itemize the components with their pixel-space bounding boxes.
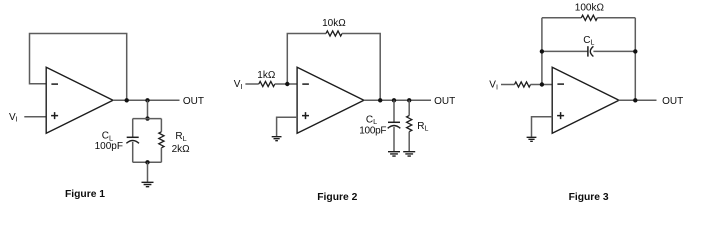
wire CL branch upper segment [393, 100, 395, 122]
junction feedback tap on output [125, 98, 129, 102]
ground (figure 3 noninverting input) [527, 137, 537, 141]
svg-text:100pF: 100pF [359, 126, 386, 137]
svg-text:Figure 3: Figure 3 [569, 192, 609, 203]
svg-text:OUT: OUT [434, 96, 455, 107]
wire Vi to op-amp noninverting input [24, 116, 46, 118]
wire noninverting input to ground [532, 117, 553, 137]
wire input resistor to inverting input [531, 84, 553, 86]
wire feedback left vertical [541, 18, 543, 85]
svg-text:Figure 2: Figure 2 [317, 192, 357, 203]
wire CL branch lower segment [393, 127, 395, 151]
svg-text:CL: CL [366, 115, 377, 127]
wire noninverting input to ground [277, 117, 298, 136]
wire outer feedback top left segment [542, 17, 581, 19]
wire op-amp output to OUT [619, 99, 657, 101]
wire feedback down to output node [342, 34, 380, 101]
svg-text:RL: RL [175, 131, 186, 143]
wire output node down to load network [147, 100, 149, 118]
wire to ground (figure 1) [147, 162, 149, 182]
capacitor CL (figure 3) [587, 46, 589, 56]
svg-text:1kΩ: 1kΩ [257, 70, 276, 81]
wire feedback loop output to inverting input [30, 34, 127, 101]
wire RL branch lower segment [160, 148, 162, 163]
resistor 10k feedback (figure 2) [326, 31, 342, 36]
junction CL tap [392, 98, 396, 102]
wire Vi to input resistor [245, 83, 258, 85]
wire Vi to input resistor [501, 84, 515, 86]
junction bottom of CL/RL pair [145, 160, 149, 164]
resistor 1k input (figure 2) [259, 81, 275, 86]
op-amp U1 (figure 1 voltage follower) [46, 67, 113, 133]
junction inverting input node [285, 82, 289, 86]
wire outer feedback top right segment [597, 17, 635, 19]
junction top of CL/RL parallel pair [145, 116, 149, 120]
wire CL branch lower segment [132, 142, 134, 162]
wire RL branch upper segment [160, 119, 162, 132]
resistor input (figure 3) [515, 82, 531, 87]
wire RL branch upper segment [408, 100, 410, 115]
junction CL right [633, 49, 637, 53]
svg-text:OUT: OUT [662, 96, 683, 107]
svg-text:Figure 1: Figure 1 [65, 189, 105, 200]
capacitor CL 100pF (figure 1) [127, 136, 139, 138]
junction load tap on output [145, 98, 149, 102]
wire RL branch lower segment [408, 132, 410, 152]
junction inverting input node [540, 82, 544, 86]
ground (figure 2 RL) [403, 152, 415, 156]
wire op-amp output to OUT [113, 99, 180, 101]
op-amp U3 (figure 3 inverting amp) [552, 67, 619, 133]
resistor 100k feedback (figure 3) [581, 15, 597, 20]
capacitor CL 100pF (figure 2) [388, 121, 400, 123]
wire feedback right vertical [634, 18, 636, 101]
wire CL inner loop left segment [542, 50, 588, 52]
svg-text:CL: CL [583, 35, 594, 47]
svg-text:2kΩ: 2kΩ [172, 144, 191, 155]
svg-text:VI: VI [489, 80, 498, 92]
svg-text:VI: VI [9, 112, 18, 124]
wire feedback up from inverting node [287, 34, 326, 85]
op-amp U2 (figure 2 inverting amp) [297, 67, 364, 133]
resistor RL 2k (figure 1) [159, 132, 164, 148]
svg-text:VI: VI [234, 79, 243, 91]
svg-text:100pF: 100pF [95, 141, 123, 152]
wire bottom rail of parallel CL/RL [133, 161, 162, 163]
junction RL tap [407, 98, 411, 102]
ground (figure 1 load) [142, 182, 154, 186]
svg-text:RL: RL [417, 121, 428, 133]
junction feedback tap on output [633, 98, 637, 102]
svg-text:10kΩ: 10kΩ [322, 18, 346, 29]
wire CL inner loop right segment [593, 50, 635, 52]
junction CL left [540, 49, 544, 53]
resistor RL (figure 2) [407, 116, 412, 132]
svg-text:100kΩ: 100kΩ [575, 3, 605, 14]
wire CL branch upper segment [132, 119, 134, 138]
junction feedback tap [378, 98, 382, 102]
wire input resistor to inverting input [275, 83, 297, 85]
wire top rail of parallel CL/RL [133, 118, 162, 120]
wire op-amp output to OUT [364, 99, 431, 101]
ground (figure 2 CL) [388, 152, 400, 156]
ground (figure 2 noninverting input) [272, 137, 282, 141]
svg-text:OUT: OUT [183, 96, 204, 107]
